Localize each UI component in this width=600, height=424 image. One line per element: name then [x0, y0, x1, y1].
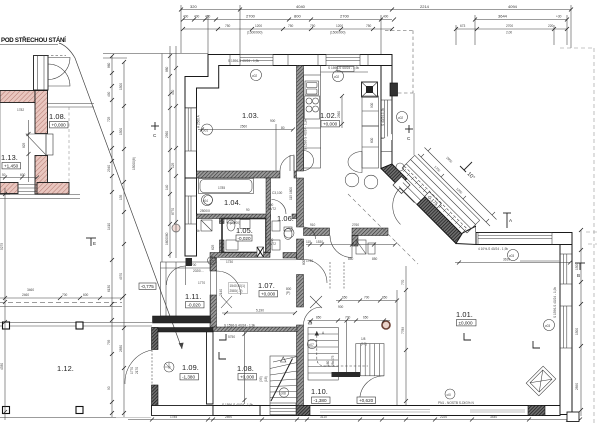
- washing machine: [201, 220, 212, 231]
- 1.09 west wall upper hatched pier: [152, 328, 159, 350]
- svg-text:1770: 1770: [130, 367, 134, 374]
- svg-text:125: 125: [171, 162, 175, 168]
- column marker small in 1.12 zone: [172, 224, 180, 232]
- east wall of 1.02 lower (white outline below pier): [381, 134, 392, 140]
- svg-text:700: 700: [191, 263, 197, 267]
- svg-text:2560: 2560: [337, 111, 341, 118]
- north wall of 1.01 (white with big window): [476, 220, 572, 245]
- svg-text:+0,000: +0,000: [240, 375, 255, 380]
- stair cut diagonal 1.08: [271, 359, 293, 402]
- svg-text:900: 900: [338, 305, 344, 309]
- svg-text:490: 490: [107, 91, 111, 97]
- svg-text:PN1 - NOSTB S-DIG% N: PN1 - NOSTB S-DIG% N: [438, 401, 474, 405]
- svg-text:5,190: 5,190: [256, 309, 264, 313]
- svg-text:2214: 2214: [420, 4, 430, 9]
- circle o02 near diagonal: [397, 112, 408, 123]
- west wall of 1.07/1.08 block lower segment: [210, 295, 217, 331]
- terrace upper edge lines: [0, 195, 80, 199]
- circle o01 on 1.03 left wall: [202, 124, 213, 135]
- svg-text:2580( -2): 2580( -2): [230, 289, 243, 293]
- svg-text:400: 400: [183, 15, 189, 19]
- svg-text:S 1596-S 40/24 - 1,9k: S 1596-S 40/24 - 1,9k: [224, 324, 255, 328]
- WC in 1.06: [272, 221, 292, 250]
- svg-text:4 10%-S 40/24 - 1,9k: 4 10%-S 40/24 - 1,9k: [478, 247, 508, 251]
- svg-text:80: 80: [281, 126, 285, 130]
- svg-text:1.03.: 1.03.: [242, 111, 259, 120]
- svg-text:1782: 1782: [17, 108, 24, 112]
- svg-text:1730: 1730: [306, 259, 313, 263]
- svg-text:o03: o03: [545, 324, 551, 328]
- svg-text:+0,620: +0,620: [359, 398, 374, 403]
- svg-text:(35): (35): [259, 376, 263, 382]
- boxed level -0.775: [139, 283, 156, 289]
- svg-text:1785: 1785: [218, 186, 225, 190]
- svg-text:-0,020: -0,020: [188, 303, 201, 308]
- dashed lines top-right of 1.07: [330, 262, 344, 290]
- SE corner step block: [567, 412, 579, 422]
- svg-text:+0,000: +0,000: [261, 292, 276, 297]
- pink wall horizontal top-left: [0, 91, 35, 103]
- terrace column top-mid: [76, 322, 83, 329]
- window parapet line 1.01: [520, 260, 559, 262]
- window 2 east wall: [560, 306, 572, 348]
- svg-text:850: 850: [348, 257, 354, 261]
- small dims inside left plan: [0, 120, 39, 182]
- svg-text:4094: 4094: [508, 4, 518, 9]
- svg-text:S 1596-S 40/24 - 1,9k: S 1596-S 40/24 - 1,9k: [222, 403, 253, 407]
- svg-text:1600060: 1600060: [165, 232, 169, 245]
- svg-text:o02: o02: [334, 75, 340, 79]
- roof overhang thin outline top-left: [103, 54, 208, 263]
- porch step wall below (dark): [153, 316, 211, 323]
- svg-text:NV72: NV72: [268, 242, 276, 246]
- central wall mid segment: [297, 178, 304, 227]
- svg-text:±0,000: ±0,000: [459, 321, 473, 326]
- svg-text:1700: 1700: [238, 254, 245, 258]
- svg-text:430: 430: [171, 89, 175, 95]
- terrace top boundary dashed double line: [0, 303, 152, 327]
- circle o02 on 1.02 top wall: [333, 71, 344, 82]
- door 1.03 to 1.04 arc: [280, 155, 294, 171]
- central wall segment below door2: [297, 275, 304, 308]
- window in east wall of 1.02: [382, 100, 393, 138]
- fireplace rotated square in 1.01: [526, 366, 556, 396]
- window in north wall of 1.01: [478, 233, 552, 245]
- svg-text:1.11.: 1.11.: [185, 292, 201, 301]
- svg-text:2940: 2940: [107, 165, 111, 172]
- circle x05 in 1.06: [284, 228, 294, 238]
- svg-text:50: 50: [2, 173, 6, 177]
- window west wall 1.04: [186, 196, 197, 224]
- bottom-left dimension line under stairs zone: [128, 418, 582, 422]
- svg-text:1.02.: 1.02.: [320, 111, 337, 120]
- south wall hatched segment right: [528, 406, 545, 416]
- svg-text:C3,100: C3,100: [272, 191, 283, 195]
- north wall over 1.03 and 1.02 (white, with outline): [185, 55, 392, 109]
- corner L mark 1 in 1.01: [464, 333, 471, 340]
- entry door arc into porch: [167, 266, 186, 285]
- svg-text:-0,775: -0,775: [141, 284, 154, 289]
- kitchen inner dim: [340, 94, 344, 128]
- svg-text:600: 600: [370, 137, 374, 143]
- 1.07 internal dims: [222, 311, 297, 315]
- east wall of 1.02: [381, 66, 392, 169]
- west wall of 1.07/1.08 block upper segment: [210, 258, 217, 271]
- svg-text:2020/...: 2020/...: [193, 269, 204, 273]
- svg-text:3b: 3b: [196, 229, 200, 233]
- svg-text:A 2560 A: A 2560 A: [197, 114, 201, 128]
- circle o05 at entry jamb: [396, 163, 404, 171]
- svg-text:700: 700: [345, 316, 351, 320]
- svg-text:B: B: [577, 273, 580, 278]
- section marker A near ramp: [503, 213, 511, 228]
- svg-text:400: 400: [194, 15, 200, 19]
- svg-text:770: 770: [401, 279, 405, 285]
- entry door jamb block: [393, 177, 410, 194]
- svg-text:800: 800: [294, 14, 301, 19]
- svg-text:1.10.: 1.10.: [311, 387, 328, 396]
- section marker B right: [575, 263, 585, 270]
- svg-text:1200: 1200: [336, 24, 343, 28]
- corner L marks in 1.08: [219, 334, 226, 340]
- section marker C right: [405, 125, 413, 133]
- bathtub: [200, 180, 252, 193]
- svg-text:o05: o05: [209, 259, 215, 263]
- svg-text:o08: o08: [281, 392, 287, 396]
- dashed canopy outline top-right of 1.02: [385, 31, 414, 156]
- terrace dimension row above boundary: [0, 296, 124, 300]
- svg-text:860: 860: [107, 62, 111, 68]
- wall between 1.07 and 1.08 (hatched): [212, 327, 297, 332]
- svg-text:1/8: 1/8: [361, 337, 366, 341]
- left-mid vertical dimension chain: [110, 54, 126, 417]
- window in north wall over 1.02: [326, 55, 360, 66]
- svg-text:600: 600: [83, 293, 89, 297]
- red column marker: [382, 321, 390, 329]
- svg-text:1530: 1530: [316, 240, 323, 244]
- 1.09 west wall lower hatched pier: [152, 385, 159, 414]
- entry door stub dark: [186, 258, 193, 266]
- svg-text:750: 750: [225, 24, 231, 28]
- door arc at stair bottom landing: [360, 376, 384, 399]
- svg-text:2890: 2890: [575, 383, 579, 390]
- svg-text:-1,380: -1,380: [314, 398, 327, 403]
- svg-text:8770: 8770: [171, 208, 175, 215]
- svg-text:115: 115: [306, 240, 311, 244]
- svg-text:2700: 2700: [506, 24, 513, 28]
- svg-text:2700: 2700: [246, 14, 256, 19]
- svg-text:2560: 2560: [165, 131, 169, 138]
- svg-text:90: 90: [107, 386, 111, 390]
- stairs hall horizontal dim: [308, 290, 400, 405]
- hob 4 circles: [305, 96, 320, 119]
- svg-text:(1500/900): (1500/900): [247, 31, 262, 35]
- svg-text:1.04.: 1.04.: [224, 198, 241, 207]
- svg-text:1.08.: 1.08.: [49, 112, 66, 121]
- west wall of 1.08 (white outline): [207, 332, 214, 405]
- svg-text:3644: 3644: [498, 14, 508, 19]
- svg-text:850: 850: [316, 316, 322, 320]
- bottom wall of 1.03 (hatched): [197, 171, 281, 178]
- svg-text:400: 400: [205, 15, 211, 19]
- window triple lines between bottom pink pieces: [18, 185, 37, 192]
- bottom wall of 1.02 (hatched, with door gap): [304, 228, 330, 236]
- svg-text:880: 880: [165, 66, 169, 72]
- ramp slope label 10 deg: [460, 162, 472, 172]
- svg-text:160: 160: [326, 360, 330, 366]
- 1.09 south wall: [152, 406, 214, 416]
- svg-text:1.09.: 1.09.: [182, 363, 199, 372]
- svg-text:850: 850: [372, 257, 378, 261]
- 1.08 internal dim: [243, 332, 247, 404]
- section marker C left: [151, 122, 159, 130]
- svg-text:(13): (13): [361, 342, 367, 346]
- svg-text:3610: 3610: [503, 258, 510, 262]
- kitchen top counter: [321, 66, 369, 76]
- entry door opening triple lines: [399, 179, 425, 205]
- svg-text:o07: o07: [309, 343, 315, 347]
- door arc hall lower (to stairs): [304, 307, 322, 325]
- central wall segment below door1: [297, 239, 304, 260]
- svg-text:2170: 2170: [135, 367, 139, 374]
- corner block at diagonal / north wall of 1.01: [456, 226, 476, 245]
- svg-text:1.07.: 1.07.: [258, 281, 275, 290]
- 1.05 enclosure dark walls: [222, 219, 266, 253]
- svg-text:1770: 1770: [198, 281, 205, 285]
- right margin dashed property line: [560, 48, 600, 424]
- svg-text:(18): (18): [264, 376, 268, 382]
- top wall joint lines: [230, 55, 368, 66]
- west wall of 1.04 (white with window): [185, 178, 197, 256]
- svg-text:2460: 2460: [22, 293, 29, 297]
- svg-text:795: 795: [107, 339, 111, 345]
- south wall hatched segment left: [297, 406, 311, 416]
- svg-text:2500/X: 2500/X: [200, 209, 211, 213]
- window in north wall over 1.03: [240, 55, 273, 66]
- svg-text:4040: 4040: [296, 4, 306, 9]
- wall 1.04/1.05 horizontal (hatched): [197, 214, 271, 219]
- 1.09 north wall (dark): [152, 328, 213, 333]
- svg-text:28x175: 28x175: [331, 355, 335, 366]
- svg-text:1410: 1410: [107, 223, 111, 230]
- door arc into 1.06: [272, 200, 287, 215]
- svg-text:1.12.: 1.12.: [57, 364, 74, 373]
- EXTERIOR RAMP diagonal band: [402, 155, 480, 233]
- circle o02 on 1.03 top wall: [251, 70, 262, 81]
- svg-text:o01: o01: [203, 128, 209, 132]
- kitchen counter left: [304, 75, 321, 168]
- interior lines of left plan: [0, 91, 94, 195]
- svg-text:(2,100): (2,100): [230, 221, 240, 225]
- exterior entry steps below 1.08 stair: [270, 403, 296, 416]
- svg-text:-0,020: -0,020: [238, 236, 251, 241]
- door X swing marks 1.07 W wall: [221, 296, 232, 308]
- WC in 1.05: [226, 219, 250, 250]
- stair circle 1.10: [307, 339, 316, 348]
- svg-text:4330: 4330: [0, 363, 4, 370]
- svg-text:+0,000: +0,000: [323, 122, 338, 127]
- svg-text:6130: 6130: [107, 285, 111, 292]
- central wall 1.03/1.02 upper segment (hatched): [297, 66, 304, 172]
- svg-text:825: 825: [22, 142, 26, 148]
- 1.01 internal dim top: [455, 261, 572, 265]
- section marker E: [86, 238, 96, 246]
- svg-text:700: 700: [364, 296, 370, 300]
- svg-text:1500: 1500: [119, 128, 123, 135]
- kitchen sink: [304, 81, 322, 148]
- entry diagonal door leaf + arc: [393, 188, 415, 224]
- 1.03 internal dim: [198, 128, 295, 132]
- wall 1.06 vertical (hatched, extends up to 1.03 wall): [266, 178, 271, 253]
- circle o05 near 1.07 NW: [208, 257, 216, 265]
- svg-text:1500: 1500: [575, 328, 579, 335]
- svg-text:625: 625: [211, 244, 215, 250]
- svg-text:5275: 5275: [0, 243, 4, 250]
- svg-text:-1,380: -1,380: [182, 375, 195, 380]
- corner L mark 2 in 1.01: [533, 341, 540, 348]
- svg-text:850: 850: [382, 296, 388, 300]
- double door fan arcs right of wall: [33, 56, 70, 87]
- svg-text:S 1596-S 40/24 - 1,9k: S 1596-S 40/24 - 1,9k: [328, 66, 359, 70]
- diagonal wall upper segment (dark): [381, 164, 407, 187]
- circle o03 on 1.01 east wall: [544, 320, 555, 331]
- svg-text:4970: 4970: [119, 273, 123, 280]
- shower/closet box right of 1.07 door: [352, 262, 374, 284]
- 1.08 south wall white: [213, 406, 260, 416]
- door arc hall to 1.07 upper: [304, 260, 328, 309]
- svg-text:750: 750: [288, 24, 294, 28]
- 1.01 vertical internal dim: [404, 266, 408, 405]
- east wall of 1.01 (white with windows): [560, 245, 572, 415]
- window 1 east wall: [560, 254, 572, 284]
- stair top triangle mark: [281, 357, 286, 362]
- svg-text:140: 140: [165, 184, 169, 190]
- svg-text:650: 650: [363, 316, 369, 320]
- top dimension chain row 3: [181, 25, 569, 45]
- door opening in pink wall with leaf: [26, 134, 53, 155]
- ramp dimension diagonal lines: [418, 148, 497, 227]
- top dimension chain row 2: [181, 15, 569, 56]
- top dimension chain row 1: [179, 5, 573, 54]
- 1.09 door arc (opens left): [125, 350, 152, 384]
- svg-text:2760: 2760: [352, 223, 359, 227]
- STAIRS right of central wall (1.10 flights): [308, 321, 346, 380]
- right inner vertical dimension chain: [579, 228, 583, 416]
- svg-text:o02: o02: [398, 116, 404, 120]
- svg-text:2830: 2830: [119, 345, 123, 352]
- kitchen half circle table: [304, 151, 314, 171]
- vertical dim chain left of building: [168, 46, 178, 258]
- wall 1.04/1.05 vertical (hatched): [220, 219, 225, 224]
- svg-text:600: 600: [20, 173, 26, 177]
- svg-text:900: 900: [370, 102, 374, 108]
- STAIRS in 1.08 (left flight with winders): [270, 356, 297, 403]
- walk line right stairs: [315, 331, 368, 366]
- svg-text:S 1596-S 40/24 - 1,9k: S 1596-S 40/24 - 1,9k: [553, 287, 557, 318]
- svg-text:S 40/24-1,9k: S 40/24-1,9k: [381, 108, 385, 126]
- svg-text:1.08.: 1.08.: [237, 364, 254, 373]
- svg-text:1200: 1200: [255, 24, 262, 28]
- svg-text:o02: o02: [252, 74, 258, 78]
- svg-text:900: 900: [301, 240, 305, 246]
- svg-text:2700: 2700: [340, 14, 350, 19]
- svg-text:400: 400: [383, 15, 389, 19]
- svg-text:1730: 1730: [226, 260, 233, 264]
- landing block with vertical steps: [356, 344, 384, 376]
- terrace column top-left: [3, 322, 10, 329]
- small pier on east wall 1.02: [390, 83, 398, 96]
- south wall of 1.04/1.05 block (hatched): [210, 253, 270, 258]
- svg-text:673: 673: [460, 24, 466, 28]
- svg-text:S 1596-S 40/24 - 1,9k: S 1596-S 40/24 - 1,9k: [304, 119, 308, 150]
- stair number circle 1.08: [279, 388, 288, 397]
- svg-text:90: 90: [246, 208, 250, 212]
- tall units right: [362, 96, 379, 168]
- door 1.11 to 1.07 arc: [217, 271, 241, 295]
- circle near south wall 1.01: [445, 389, 455, 399]
- window west wall 1.03: [185, 108, 197, 151]
- svg-text:650: 650: [342, 296, 348, 300]
- svg-text:x04: x04: [203, 199, 208, 203]
- boxed ramp level: [425, 192, 442, 209]
- south wall of building (long, white with windows): [260, 406, 560, 416]
- terrace column bottom-left: [3, 407, 10, 414]
- svg-text:5750: 5750: [228, 335, 235, 339]
- wall stub right of 1.06 door: [292, 214, 297, 219]
- svg-text:115 1600: 115 1600: [289, 187, 293, 200]
- dashed roof line parallel to entry: [348, 194, 418, 264]
- pink wall bottom-left piece: [0, 183, 18, 194]
- svg-text:3460: 3460: [27, 288, 34, 292]
- svg-text:7789: 7789: [401, 327, 405, 334]
- svg-text:2,00: 2,00: [506, 31, 512, 35]
- pink wall vertical segment lower: [35, 156, 48, 195]
- svg-text:1500: 1500: [575, 263, 579, 270]
- svg-text:1.13.: 1.13.: [1, 153, 18, 162]
- washbasin: [204, 196, 213, 205]
- svg-text:E: E: [93, 241, 96, 246]
- svg-text:750: 750: [366, 24, 372, 28]
- svg-text:+30: +30: [556, 15, 562, 19]
- chimney block with X: [362, 82, 378, 97]
- svg-text:o0l: o0l: [447, 393, 452, 397]
- svg-text:220: 220: [548, 24, 554, 28]
- pink wall bottom corner piece: [37, 183, 69, 195]
- diagonal wall lower segment (dark): [417, 197, 462, 244]
- svg-text:+0,000: +0,000: [52, 123, 67, 128]
- svg-text:(P): (P): [286, 291, 290, 295]
- svg-text:POD STŘECHOU STÁNÍ: POD STŘECHOU STÁNÍ: [1, 36, 66, 44]
- svg-text:700: 700: [62, 293, 68, 297]
- circle o03 below 1.01 north wall: [508, 250, 519, 261]
- pink wall vertical segment upper: [35, 91, 48, 134]
- door arc 1.06: [304, 227, 316, 239]
- svg-text:1540,40(1): 1540,40(1): [230, 284, 245, 288]
- central wall bottom segment: [297, 325, 304, 406]
- dark wall band under stair columns: [332, 372, 361, 377]
- svg-text:S 1596-S 40/24 - 1,9k: S 1596-S 40/24 - 1,9k: [228, 59, 259, 63]
- svg-text:(1500/900): (1500/900): [330, 31, 345, 35]
- svg-text:2140: 2140: [219, 289, 223, 296]
- svg-text:1.01.: 1.01.: [456, 310, 473, 319]
- svg-text:320: 320: [190, 4, 197, 9]
- dining table circles: [345, 152, 378, 189]
- south wall windows triple lines: [320, 410, 525, 413]
- porch 1.11 slab outline: [161, 262, 211, 316]
- bottom wall of 1.03 right stub: [294, 171, 297, 178]
- door arc from 1.02 to hall: [330, 236, 352, 258]
- svg-text:725: 725: [107, 116, 111, 122]
